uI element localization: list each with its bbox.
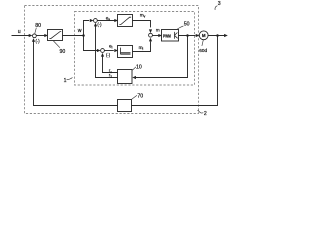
arrowhead feedback up into sum1 xyxy=(32,38,35,42)
block 30 icon vertical axis xyxy=(120,48,122,55)
wire branch up to sum2 xyxy=(84,21,90,36)
wire sum2 to block20 xyxy=(97,20,114,22)
arrowhead into block30 xyxy=(114,49,118,52)
svg-text:10: 10 xyxy=(136,64,142,70)
block 90 ramp icon xyxy=(49,32,61,39)
svg-text:3: 3 xyxy=(218,1,221,7)
wire PWM tap down + left into block10 xyxy=(135,36,187,78)
wire motor out xyxy=(208,35,224,37)
block 20 controller (row1) xyxy=(118,15,133,27)
arrowhead up into sum3 xyxy=(149,38,152,42)
arrowhead into PWM xyxy=(158,34,162,37)
arrowhead into block20 xyxy=(114,19,118,22)
summing junction sum3 xyxy=(149,33,153,37)
leader 3 xyxy=(215,6,217,10)
svg-text:90: 90 xyxy=(60,49,66,55)
svg-text:70: 70 xyxy=(137,93,143,99)
arrowhead motor out end xyxy=(224,34,228,37)
block 30 controller (row2) xyxy=(118,46,133,58)
leader 2 xyxy=(198,110,204,113)
leader 80 xyxy=(35,28,37,34)
svg-text:(-): (-) xyxy=(97,22,102,27)
junction dot motor output xyxy=(216,34,219,37)
arrowhead into sum2 xyxy=(90,19,94,22)
wire motor tap down + bottom feedback into block70 xyxy=(132,36,218,106)
arrowhead r up into sum4 xyxy=(101,53,104,57)
wire branch down to sum4 xyxy=(84,36,99,51)
svg-text:m: m xyxy=(156,28,160,33)
motor M 60d xyxy=(199,31,208,40)
PWM switch icon xyxy=(175,32,178,39)
wire block10 top output to sum4 xyxy=(103,56,118,73)
leader 60d xyxy=(202,40,203,46)
leader 10 xyxy=(132,67,136,70)
leader 90 xyxy=(53,41,60,48)
wire sum4 to block30 xyxy=(104,50,113,52)
summing junction sum4 xyxy=(101,49,105,53)
svg-text:u: u xyxy=(18,29,21,35)
summing junction 80 (sum1) xyxy=(33,34,37,38)
arrowhead left into block10 xyxy=(132,76,136,79)
block 90 ramp limiter xyxy=(48,30,63,41)
svg-text:1: 1 xyxy=(64,78,67,84)
block 30 icon lower bar xyxy=(121,53,131,55)
block 70 feedback filter xyxy=(118,100,132,112)
wire block20 out down to sum3 xyxy=(133,21,151,28)
svg-text:(-): (-) xyxy=(106,52,111,57)
leader 50 xyxy=(177,26,184,30)
summing junction sum2 xyxy=(94,19,98,23)
junction dot at w xyxy=(82,34,85,37)
wire block30 out up to sum3 xyxy=(133,41,151,51)
wire block10 bottom output to sum2 xyxy=(96,24,118,78)
junction dot PWM output xyxy=(186,34,189,37)
wire u input xyxy=(12,35,30,37)
arrowhead r up into sum2 xyxy=(94,23,97,27)
arrowhead into sum4 xyxy=(97,49,101,52)
leader 1 xyxy=(67,78,73,80)
inner dashed box (controller 1) xyxy=(75,12,195,86)
outer dashed box (control device 2) xyxy=(25,6,199,114)
arrowhead down into sum3 xyxy=(149,29,152,33)
svg-text:(-): (-) xyxy=(36,39,41,44)
arrowhead u into sum1 xyxy=(29,34,33,37)
arrowhead into motor xyxy=(196,34,200,37)
block 30 icon upper line xyxy=(121,52,131,54)
leader 70 xyxy=(132,95,137,99)
svg-text:60d: 60d xyxy=(199,48,207,53)
wire block70 out left + up to sum1 xyxy=(34,41,118,106)
block 20 ramp icon xyxy=(119,17,131,24)
svg-text:PWM: PWM xyxy=(163,33,171,38)
wire w: block90 to junction xyxy=(63,35,84,37)
wire PWM to motor xyxy=(179,35,196,37)
svg-text:M: M xyxy=(202,33,206,38)
wire sum1 to block90 xyxy=(36,35,45,37)
svg-text:2: 2 xyxy=(204,111,207,117)
block PWM 50 xyxy=(162,30,179,42)
block 10 model xyxy=(118,70,133,84)
arrowhead into block90 xyxy=(44,34,48,37)
svg-text:w: w xyxy=(78,28,82,34)
wire sum3 to PWM xyxy=(152,35,158,37)
svg-text:50: 50 xyxy=(184,21,190,27)
